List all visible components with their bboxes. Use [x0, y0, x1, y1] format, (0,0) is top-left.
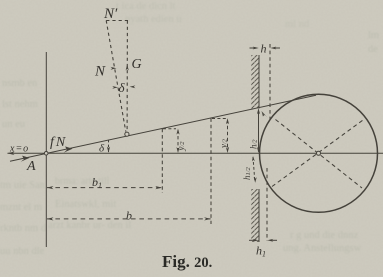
svg-text:δ: δ	[119, 80, 126, 95]
svg-text:ung. Anstellungsw: ung. Anstellungsw	[283, 243, 362, 254]
svg-text:nyath edien u: nyath edien u	[125, 14, 182, 25]
svg-text:G: G	[132, 57, 142, 72]
svg-text:lst nehm: lst nehm	[2, 99, 38, 110]
svg-text:un eu: un eu	[2, 119, 26, 130]
svg-text:t ica de dicn lt: t ica de dicn lt	[116, 1, 176, 12]
svg-text:lm: lm	[368, 30, 379, 41]
svg-text:h: h	[261, 42, 267, 56]
svg-text:A: A	[26, 159, 36, 174]
svg-text:nsmb en: nsmb en	[2, 78, 38, 89]
svg-text:mznt el m: mznt el m	[0, 202, 42, 213]
svg-text:fN: fN	[50, 135, 67, 150]
svg-text:tm uie San: tm uie San	[0, 180, 46, 191]
svg-text:ml nd: ml nd	[285, 19, 310, 30]
svg-text:de: de	[368, 44, 378, 55]
svg-text:δ: δ	[99, 143, 105, 155]
svg-text:x=o: x=o	[9, 144, 29, 155]
svg-text:Einatswkl, mit: Einatswkl, mit	[55, 199, 116, 210]
svg-text:arzt kanbr ur- den il: arzt kanbr ur- den il	[48, 220, 131, 231]
svg-text:rkntb nm d: rkntb nm d	[0, 223, 47, 234]
svg-text:r g und die dnnz: r g und die dnnz	[290, 230, 359, 241]
svg-text:b: b	[126, 209, 132, 223]
svg-text:Fig. 20.: Fig. 20.	[162, 252, 212, 271]
svg-text:N′: N′	[103, 6, 118, 22]
svg-text:uu nbn dle: uu nbn dle	[0, 246, 45, 257]
svg-text:N: N	[94, 64, 106, 80]
